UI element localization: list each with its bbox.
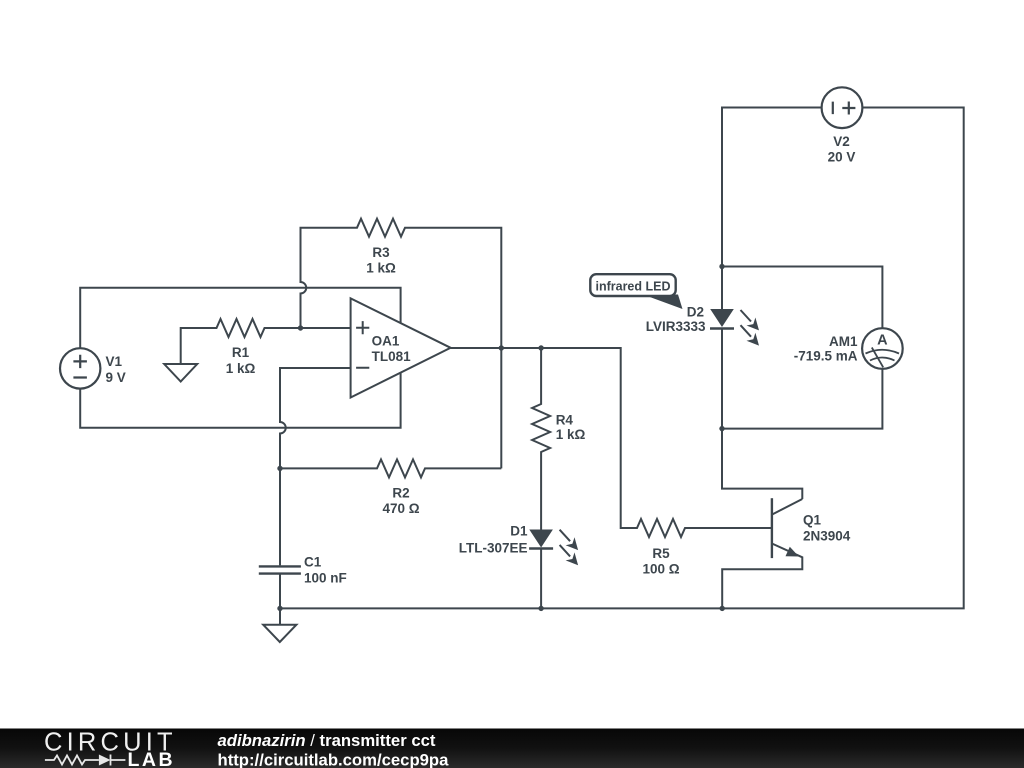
svg-text:R5: R5 <box>652 546 670 561</box>
svg-text:1 kΩ: 1 kΩ <box>556 427 586 442</box>
svg-text:100 nF: 100 nF <box>304 571 347 586</box>
svg-text:LAB: LAB <box>128 749 176 768</box>
svg-text:AM1: AM1 <box>829 334 858 349</box>
svg-text:2N3904: 2N3904 <box>803 529 851 544</box>
svg-text:infrared LED: infrared LED <box>595 279 670 293</box>
svg-text:100 Ω: 100 Ω <box>642 562 679 577</box>
svg-text:20 V: 20 V <box>828 150 856 165</box>
svg-text:C1: C1 <box>304 555 322 570</box>
svg-text:R1: R1 <box>232 345 250 360</box>
svg-text:9 V: 9 V <box>106 370 126 385</box>
svg-text:LVIR3333: LVIR3333 <box>646 319 706 334</box>
svg-text:1 kΩ: 1 kΩ <box>226 361 256 376</box>
svg-text:http://circuitlab.com/cecp9pa: http://circuitlab.com/cecp9pa <box>218 751 450 768</box>
svg-text:LTL-307EE: LTL-307EE <box>459 541 528 556</box>
svg-text:R4: R4 <box>556 413 574 428</box>
svg-text:V1: V1 <box>106 354 123 369</box>
svg-text:Q1: Q1 <box>803 513 822 528</box>
svg-text:D1: D1 <box>510 524 528 539</box>
svg-text:A: A <box>877 332 888 348</box>
svg-text:R3: R3 <box>372 245 390 260</box>
svg-text:470 Ω: 470 Ω <box>382 501 419 516</box>
svg-text:-719.5 mA: -719.5 mA <box>794 349 858 364</box>
svg-text:R2: R2 <box>392 486 409 501</box>
svg-text:adibnazirin / transmitter cct: adibnazirin / transmitter cct <box>218 731 436 750</box>
svg-text:D2: D2 <box>687 305 704 320</box>
svg-text:OA1: OA1 <box>372 333 400 348</box>
svg-text:V2: V2 <box>833 134 850 149</box>
svg-text:TL081: TL081 <box>372 349 412 364</box>
svg-text:1 kΩ: 1 kΩ <box>366 261 396 276</box>
